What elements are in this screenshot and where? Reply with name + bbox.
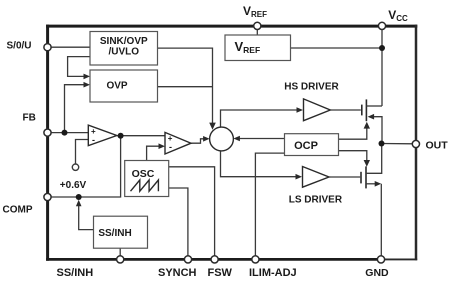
wire SS/INH block to COMP junction (up arrow) [79, 203, 94, 230]
wire OCP lower sense with down arrow to Q2 [339, 151, 367, 162]
IC boundary box left border [46, 25, 49, 261]
svg-text:ILIM-ADJ: ILIM-ADJ [249, 267, 297, 279]
svg-text:COMP: COMP [3, 204, 33, 215]
block OCP [285, 134, 339, 156]
svg-text:SINK/OVP: SINK/OVP [100, 36, 148, 47]
wire error amp - input to 0.6V reference [76, 140, 89, 164]
transistor Q1 drain lead to VCC [366, 105, 382, 107]
pin ILIM-ADJ [252, 256, 259, 263]
wire SINK/OVP and OVP outputs to mixer circle top (down arrow) [158, 48, 213, 124]
svg-text:OVP: OVP [106, 81, 127, 92]
wire VREF pin to VREF block [256, 28, 258, 35]
pin VREF [254, 22, 261, 29]
pin FB [44, 129, 51, 136]
mixer / PWM logic circle [210, 127, 234, 151]
svg-text:SS/INH: SS/INH [98, 228, 131, 239]
svg-text:-: - [92, 135, 95, 145]
amplifier LS driver [303, 167, 330, 188]
op-amp error amplifier [88, 125, 117, 146]
LS driver output wire to Q2 gate [329, 176, 360, 178]
wire OSC to FSW pin [169, 167, 215, 257]
amplifier HS driver [304, 99, 331, 121]
wire FB pin to error amp + input [50, 132, 89, 134]
node FB junction [62, 130, 68, 136]
block SS/INH [94, 216, 148, 248]
pin SS/INH (bottom) [117, 256, 124, 263]
svg-text:GND: GND [365, 267, 389, 279]
wire OVP output joining vertical [158, 86, 214, 88]
transistor Q1 (high-side MOSFET) gate bar [361, 105, 363, 116]
pin FSW [211, 256, 218, 263]
svg-text:-: - [169, 142, 172, 152]
pin SYNCH [184, 256, 191, 263]
OSC sawtooth waveform [131, 180, 159, 191]
svg-text:FB: FB [23, 113, 36, 124]
wire OCP to ILIM-ADJ pin [255, 153, 284, 257]
pin VCC [378, 22, 385, 29]
wire VREF block to VCC line [291, 47, 382, 49]
wire mixer circle to HS driver input (arrow) [221, 110, 298, 127]
svg-text:FSW: FSW [208, 267, 233, 279]
node COMP / soft-start junction [76, 194, 82, 200]
block OVP [90, 70, 158, 102]
comparator PWM [165, 132, 191, 154]
wire FB node up to OVP (with arrow) [65, 85, 85, 133]
pin GND [377, 256, 384, 263]
wire OCP to mixer circle right (arrow) [239, 138, 284, 140]
svg-text:SS/INH: SS/INH [57, 267, 94, 279]
svg-text:HS DRIVER: HS DRIVER [284, 82, 339, 93]
transistor Q1 source lead with arrow to OUT node [373, 117, 383, 144]
svg-text:OCP: OCP [294, 140, 318, 152]
transistor Q1 channel bar [365, 99, 367, 121]
wire OSC to PWM comparator - input (arrow) [147, 146, 160, 160]
svg-text:SYNCH: SYNCH [158, 267, 197, 279]
IC boundary box top border [46, 25, 417, 28]
wire error amp output down to COMP line [50, 136, 121, 197]
wire error amp output to PWM comparator + input [117, 135, 166, 137]
IC boundary box bottom border (thick left part) [46, 258, 381, 261]
transistor Q2 source lead with arrow to GND [366, 183, 375, 185]
wire VCC pin down to HS drain [381, 28, 383, 107]
wire PWM comparator output to mixer circle (arrow) [191, 139, 204, 143]
wire S/0/U pin to SINK/OVP block [50, 46, 92, 48]
svg-text:S/0/U: S/0/U [7, 40, 32, 51]
wire OUT node to OUT pin [382, 143, 414, 145]
node OUT junction [379, 141, 385, 147]
IC boundary box bottom border (thin right part) [381, 258, 417, 260]
svg-text:/UVLO: /UVLO [109, 47, 140, 58]
svg-text:OUT: OUT [426, 139, 449, 151]
block VREF regulator [225, 35, 291, 61]
IC boundary box right border [415, 25, 418, 261]
block SINK/OVP/UVLO [90, 32, 158, 66]
0.6V reference terminal circle [72, 164, 78, 170]
wire Q2 source down to GND pin [380, 184, 382, 257]
node error amp output junction [118, 133, 124, 139]
node VCC / VREF junction [379, 45, 385, 51]
HS driver output wire to Q1 gate [330, 109, 361, 111]
transistor Q2 (low-side MOSFET) gate bar [360, 172, 362, 184]
pin OUT [412, 140, 419, 147]
wire OSC to SYNCH pin [169, 188, 188, 257]
svg-text:+0.6V: +0.6V [60, 180, 87, 191]
pin S/0/U [44, 44, 51, 51]
pin COMP [44, 193, 51, 200]
wire OCP upper sense with up arrow to Q1 [339, 126, 367, 139]
wire SS/INH block to SS/INH pin [119, 248, 121, 257]
transistor Q2 drain lead up to OUT node [366, 144, 382, 174]
wire SINK/OVP left to OVP left (with arrow) [68, 57, 91, 77]
block OSC oscillator [125, 161, 169, 197]
svg-text:OSC: OSC [132, 168, 155, 180]
wire mixer circle to LS driver input (arrow) [221, 151, 297, 177]
transistor Q2 channel bar [365, 166, 367, 188]
svg-text:LS DRIVER: LS DRIVER [289, 195, 343, 206]
